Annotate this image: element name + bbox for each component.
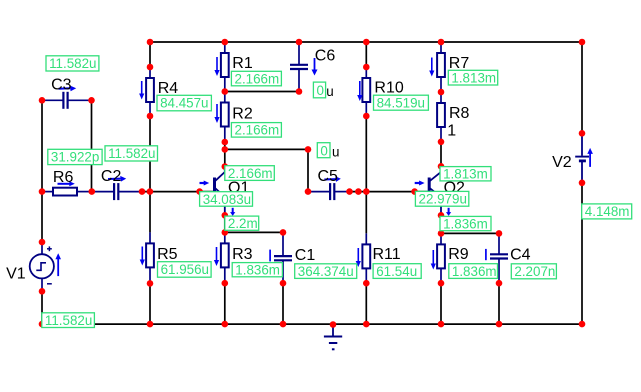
svg-text:R3: R3 (232, 246, 253, 263)
svg-text:0: 0 (317, 83, 324, 98)
svg-text:1.836m: 1.836m (443, 217, 488, 232)
svg-text:11.582u: 11.582u (108, 146, 155, 161)
svg-text:R2: R2 (232, 105, 253, 122)
svg-text:1.836m: 1.836m (452, 264, 497, 279)
svg-text:u: u (326, 84, 333, 99)
svg-text:2.166m: 2.166m (228, 166, 273, 181)
svg-text:31.922p: 31.922p (51, 149, 99, 164)
svg-text:1.813m: 1.813m (443, 167, 488, 182)
svg-text:C1: C1 (295, 247, 316, 264)
svg-text:61.956u: 61.956u (161, 262, 209, 277)
svg-text:61.54u: 61.54u (376, 264, 417, 279)
svg-text:2.207n: 2.207n (514, 264, 555, 279)
svg-text:34.083u: 34.083u (203, 192, 251, 207)
svg-text:0: 0 (320, 143, 327, 158)
svg-text:22.979u: 22.979u (419, 192, 467, 207)
svg-text:R7: R7 (449, 55, 470, 72)
svg-text:11.582u: 11.582u (49, 56, 96, 71)
svg-text:R10: R10 (374, 80, 403, 97)
svg-text:C3: C3 (51, 76, 72, 93)
svg-text:R5: R5 (157, 246, 178, 263)
svg-text:84.457u: 84.457u (160, 95, 208, 110)
svg-text:V1: V1 (6, 266, 26, 283)
svg-text:2.166m: 2.166m (235, 123, 280, 138)
svg-text:1.813m: 1.813m (451, 70, 496, 85)
svg-text:R6: R6 (53, 169, 74, 186)
svg-text:R1: R1 (232, 55, 253, 72)
svg-text:C6: C6 (315, 47, 336, 64)
svg-text:C5: C5 (318, 168, 339, 185)
svg-text:u: u (332, 145, 339, 160)
svg-text:R11: R11 (373, 246, 401, 263)
svg-text:C2: C2 (101, 168, 122, 185)
svg-text:364.374u: 364.374u (298, 264, 354, 279)
svg-text:C4: C4 (510, 247, 531, 264)
svg-text:11.582u: 11.582u (45, 313, 92, 328)
svg-text:V2: V2 (552, 154, 572, 171)
svg-text:1.836m: 1.836m (235, 263, 280, 278)
svg-text:4.148m: 4.148m (585, 204, 630, 219)
svg-text:R8: R8 (449, 105, 470, 122)
svg-text:R9: R9 (448, 246, 469, 263)
svg-text:2.166m: 2.166m (235, 71, 280, 86)
svg-text:1: 1 (447, 122, 456, 139)
svg-text:R4: R4 (158, 80, 179, 97)
svg-text:84.519u: 84.519u (377, 95, 425, 110)
svg-text:2.2m: 2.2m (228, 216, 258, 231)
